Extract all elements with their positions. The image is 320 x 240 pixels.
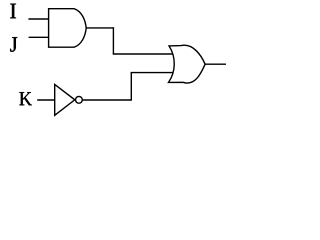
wire NOT output vertical rise <box>130 73 132 101</box>
node J label <box>10 37 17 52</box>
wire K input to NOT gate <box>37 99 55 101</box>
inverter U2 bubble <box>76 96 83 103</box>
wire to OR gate top input <box>113 53 173 55</box>
node I label <box>10 4 16 19</box>
wire to OR gate bottom input <box>131 72 173 74</box>
wire OR output <box>205 63 226 65</box>
wire AND output horizontal <box>86 27 113 29</box>
wire NOT output horizontal <box>83 99 132 101</box>
node K label <box>19 92 31 105</box>
wire I input to AND gate <box>28 18 49 20</box>
and-gate U1 <box>49 9 87 48</box>
wire AND output vertical drop <box>112 27 114 54</box>
inverter U2 triangle <box>55 84 75 115</box>
wire J input to AND gate <box>29 36 49 38</box>
or-gate U3 <box>169 45 206 83</box>
